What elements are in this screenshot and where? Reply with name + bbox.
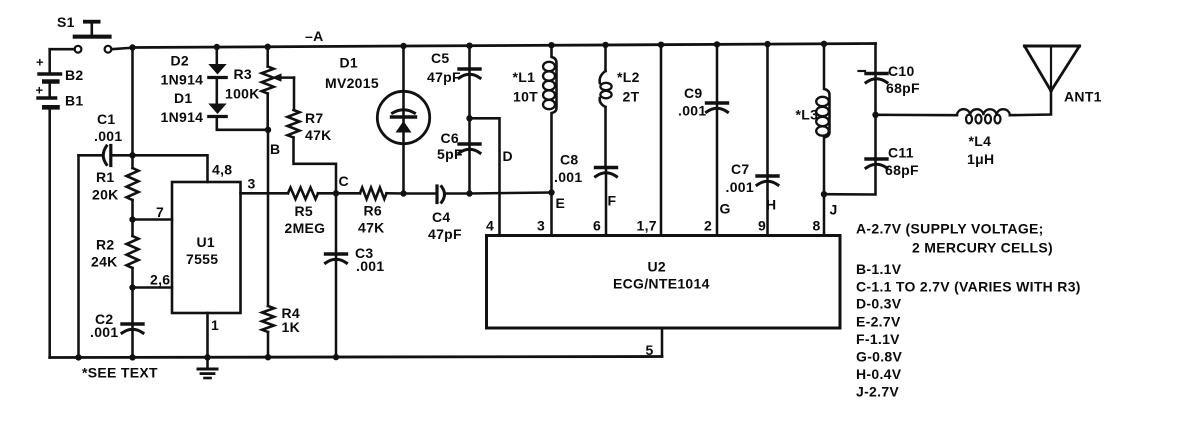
svg-text:.001: .001 [554,169,582,185]
svg-text:47K: 47K [305,127,332,143]
svg-text:S1: S1 [57,14,75,30]
svg-text:B: B [270,141,280,157]
wire C5 to C6 [468,71,471,144]
wire U2 pin 5 to ground rail [646,328,663,358]
ground symbol [198,369,217,378]
op-amp U1 7555 [172,182,241,313]
svg-text:C: C [339,173,349,189]
svg-text:ANT1: ANT1 [1064,89,1102,105]
svg-text:R7: R7 [305,110,324,126]
svg-text:7555: 7555 [186,251,218,267]
wire R7 to node C [294,138,337,194]
wire U1 pin 1 to ground [208,313,220,368]
svg-text:D1: D1 [174,90,193,106]
svg-text:1N914: 1N914 [161,109,204,125]
svg-text:B1: B1 [65,93,84,109]
wire C6 to C4 junction [468,146,471,194]
wire C10 to C11 [874,76,877,160]
svg-text:.001: .001 [94,128,122,144]
svg-text:10T: 10T [513,89,538,105]
svg-text:2MEG: 2MEG [285,220,326,236]
wire L2 to C8 [604,107,607,168]
svg-text:.001: .001 [356,258,384,274]
svg-text:H-0.4V: H-0.4V [856,366,902,382]
svg-text:H: H [766,197,776,213]
svg-text:2 MERCURY CELLS): 2 MERCURY CELLS) [912,240,1053,256]
svg-text:U2: U2 [648,259,667,275]
wire R4 to ground rail [267,332,270,357]
svg-text:3: 3 [537,218,545,234]
svg-text:68pF: 68pF [886,80,920,96]
svg-text:24K: 24K [91,254,118,270]
svg-text:J: J [830,202,838,218]
svg-text:1,7: 1,7 [637,218,657,234]
svg-text:1μH: 1μH [967,151,994,167]
wire C4 to node E [470,193,552,194]
svg-text:D2: D2 [171,53,190,69]
svg-text:4: 4 [486,218,494,234]
svg-text:E-2.7V: E-2.7V [856,314,901,330]
svg-text:G: G [720,201,731,217]
inductor L2 2T [600,45,640,107]
wire rail to U2 pins 1,7 [637,45,662,236]
inductor L4 1uH [957,109,1010,167]
svg-text:*L2: *L2 [617,69,640,85]
node C [318,173,360,193]
node F wire to U2 pin 6 [606,170,617,236]
svg-text:*L1: *L1 [513,69,536,85]
capacitor C2 [90,311,143,340]
inductor L1 10T [513,45,557,192]
svg-text:C5: C5 [431,50,450,66]
wire R1 to R2 through pin7 junction [131,200,134,236]
ground rail [50,357,662,358]
resistor R6 [358,188,387,236]
svg-text:MV2015: MV2015 [325,75,379,91]
wire C1 left vertical [77,155,80,357]
svg-text:47K: 47K [358,220,385,236]
svg-text:9: 9 [758,218,766,234]
wire U1 pin 7 [133,204,173,220]
svg-text:C11: C11 [888,145,914,161]
svg-text:1K: 1K [282,319,301,335]
battery B2 [36,49,84,83]
resistor R4 [262,305,300,335]
svg-text:R2: R2 [96,237,115,253]
antenna ANT1 [1025,46,1102,105]
svg-text:5pF: 5pF [437,146,463,162]
wire C1 junction to R1 [131,155,134,168]
capacitor C5 [427,46,480,85]
resistor R2 [91,236,139,270]
capacitor C9 [678,44,728,118]
svg-text:1: 1 [211,317,219,333]
wire D1 to node B junction [217,117,268,130]
wire U1 pin 3 to R5 [241,176,289,194]
resistor R1 [92,168,139,203]
wire R6 to varactor node [387,192,404,195]
battery B1 [36,83,84,109]
svg-text:*L4: *L4 [969,133,992,149]
inductor L3 [796,44,830,194]
svg-text:C4: C4 [432,209,451,225]
wire node B down to R4 [267,130,270,306]
svg-text:47pF: 47pF [427,69,461,85]
svg-text:7: 7 [156,204,164,220]
capacitor C3 [326,193,385,357]
capacitor C8 [554,152,617,186]
svg-text:C10: C10 [888,63,915,79]
svg-text:R1: R1 [96,169,115,185]
svg-text:2,6: 2,6 [150,272,170,288]
varactor D1 MV2015 [325,46,430,194]
svg-text:F-1.1V: F-1.1V [856,331,900,347]
capacitor C6 [437,130,480,162]
svg-text:2T: 2T [623,89,640,105]
node H wire to U2 pin 9 [766,178,776,236]
svg-text:–A: –A [305,28,324,44]
wire U1 pins 4,8 [133,155,233,182]
svg-text:B-1.1V: B-1.1V [856,261,902,277]
node J wire to U2 pin 8 [824,194,838,235]
svg-text:*L3: *L3 [796,107,819,123]
svg-text:+: + [36,55,44,70]
wire S1 to node A rail [112,48,133,50]
R3 wiper arrow to R7 [272,73,295,110]
svg-text:.001: .001 [678,103,706,119]
svg-text:C6: C6 [441,130,460,146]
diode D1 1N914 [161,78,227,126]
svg-text:G-0.8V: G-0.8V [856,349,903,365]
svg-text:8: 8 [813,218,821,234]
switch S1 [57,14,112,53]
resistor R5 [285,188,326,237]
wire R2 to C2 [131,268,134,324]
svg-text:C9: C9 [684,85,703,101]
svg-text:F: F [608,193,617,209]
svg-text:D1: D1 [340,55,359,71]
node G wire to U2 pin 2 [717,105,731,236]
svg-text:C7: C7 [731,161,750,177]
svg-text:B2: B2 [65,67,84,83]
capacitor C11 [866,145,919,179]
wire C11 to node J [824,161,876,195]
capacitor C7 [726,44,779,195]
wire battery negative to ground rail [48,110,51,358]
svg-text:C8: C8 [560,152,579,168]
capacitor C4 [404,186,470,242]
potentiometer R3 [225,47,274,130]
op-amp U2 ECG/NTE1014 [487,236,841,329]
svg-text:3: 3 [248,176,256,192]
wire rail end down to C10 [874,44,877,74]
svg-text:R6: R6 [364,203,383,219]
svg-text:A-2.7V (SUPPLY VOLTAGE;: A-2.7V (SUPPLY VOLTAGE; [856,221,1044,237]
resistor R7 [288,110,332,143]
node A supply rail [133,44,876,48]
svg-text:100K: 100K [225,86,260,102]
capacitor C10 [866,63,920,96]
svg-text:C-1.1 TO 2.7V (VARIES WITH R3): C-1.1 TO 2.7V (VARIES WITH R3) [856,279,1081,295]
svg-text:6: 6 [593,218,601,234]
svg-text:C1: C1 [97,111,116,127]
svg-text:4,8: 4,8 [212,162,232,178]
svg-text:1N914: 1N914 [161,72,204,88]
svg-text:R3: R3 [234,66,253,82]
svg-text:D-0.3V: D-0.3V [856,296,902,312]
svg-text:D: D [503,148,513,164]
wire C2 to ground rail [131,326,134,357]
svg-text:ECG/NTE1014: ECG/NTE1014 [613,276,710,292]
wire L4 to antenna [1010,91,1051,115]
node D wire to U2 pin 4 [470,118,513,235]
svg-text:5: 5 [646,342,654,358]
wire U1 pins 2,6 [133,272,173,288]
voltage legend [856,221,1081,400]
svg-text:20K: 20K [92,187,119,203]
svg-text:.001: .001 [726,179,754,195]
wire battery to S1 [50,48,75,51]
capacitor C1 [79,111,133,166]
svg-text:J-2.7V: J-2.7V [856,384,899,400]
node E wire to U2 pin 3 [552,193,566,236]
svg-text:47pF: 47pF [428,226,462,242]
svg-text:*SEE TEXT: *SEE TEXT [82,365,158,381]
wire S1 node down to C1 junction [131,48,134,156]
svg-text:.001: .001 [90,324,118,340]
wire C10/C11 tap to L4 [876,114,958,117]
svg-text:68pF: 68pF [885,162,919,178]
svg-text:+: + [36,83,44,98]
svg-text:U1: U1 [197,234,216,250]
svg-text:R5: R5 [295,203,314,219]
polarity dash [859,70,866,72]
diode D2 1N914 [161,47,227,88]
svg-text:E: E [556,195,566,211]
svg-text:2: 2 [704,218,712,234]
